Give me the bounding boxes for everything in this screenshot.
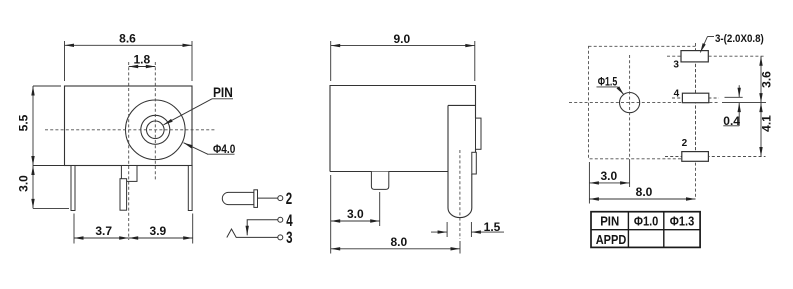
svg-text:Φ1.5: Φ1.5 (598, 74, 618, 88)
centerline vertical circle (629, 55, 631, 187)
svg-text:9.0: 9.0 (393, 32, 410, 46)
svg-text:PIN: PIN (213, 85, 233, 100)
center pin circle (147, 121, 165, 139)
svg-text:4.1: 4.1 (760, 115, 774, 132)
dimension 4.1 (760, 103, 774, 157)
svg-text:2: 2 (682, 138, 688, 149)
svg-text:3: 3 (673, 60, 679, 71)
label pad 4 (674, 88, 680, 99)
svg-text:5.5: 5.5 (17, 114, 31, 131)
centerline horizontal barrel (45, 129, 215, 131)
phi 4.0 leader label (184, 142, 236, 156)
svg-text:3.0: 3.0 (600, 169, 617, 183)
svg-text:APPD: APPD (596, 232, 627, 247)
svg-text:0.4: 0.4 (723, 114, 740, 128)
middle terminal pin (120, 179, 127, 211)
dimension 9.0 (331, 32, 475, 81)
barrel middle circle (141, 115, 170, 144)
svg-text:8.0: 8.0 (636, 185, 653, 199)
dimension 1.8 (129, 53, 156, 67)
solder pad 4 (682, 93, 708, 103)
body outline hidden (dashed rectangle) (589, 46, 696, 159)
centerline barrel tube (459, 150, 461, 239)
svg-text:Φ4.0: Φ4.0 (213, 142, 236, 156)
table cell phi 1.0 (634, 214, 659, 229)
barrel tube side view (448, 105, 476, 217)
terminal circle 2 (278, 196, 283, 201)
right terminal pin (188, 166, 192, 211)
table grid (591, 212, 700, 248)
svg-text:3.9: 3.9 (150, 224, 167, 238)
table cell PIN (600, 214, 619, 229)
svg-text:1.5: 1.5 (484, 220, 501, 234)
label pad 3 (673, 60, 679, 71)
label 4 (286, 212, 293, 230)
dimension 3.6 (760, 56, 774, 102)
terminal circle 4 (278, 217, 283, 222)
label 2 (286, 190, 292, 208)
wire pin 4 (247, 220, 277, 236)
table cell phi 1.3 (670, 214, 695, 229)
dimension 3.0 lower left (17, 166, 69, 209)
svg-text:3.6: 3.6 (760, 71, 774, 88)
svg-text:Φ1.3: Φ1.3 (670, 214, 695, 229)
wire pin 2 (258, 197, 278, 199)
svg-text:Φ1.0: Φ1.0 (634, 214, 659, 229)
svg-text:3: 3 (286, 229, 292, 247)
label pad 2 (682, 138, 688, 149)
body side view outline (330, 86, 476, 172)
svg-text:2: 2 (286, 190, 292, 208)
switch contact pin 3 (227, 229, 278, 238)
svg-text:8.0: 8.0 (390, 235, 407, 249)
table cell APPD (596, 232, 627, 247)
centerline pad 2 (665, 156, 766, 158)
terminal pin side view (371, 172, 388, 190)
svg-text:3-(2.0X0.8): 3-(2.0X0.8) (715, 33, 764, 45)
dimension 8.6 (65, 32, 193, 81)
phi 1.5 leader label (597, 74, 624, 94)
centerline pad 3 (667, 55, 766, 57)
plug flange (254, 190, 258, 208)
svg-text:4: 4 (674, 88, 680, 99)
terminal circle 3 (278, 235, 283, 240)
leader label 3-(2.0X0.8) (700, 33, 764, 53)
dimension 0.4 (723, 85, 742, 128)
left terminal pin (71, 166, 75, 211)
dimension 3.7 (74, 214, 129, 244)
label 3 (286, 229, 292, 247)
centerline pad column (695, 43, 697, 199)
solder pad 3 (681, 51, 708, 62)
plug barrel symbol (222, 192, 254, 204)
mounting tab upper (476, 118, 482, 149)
svg-text:3.0: 3.0 (17, 175, 31, 192)
centerline pad 4 (672, 97, 719, 99)
dimension 8.0 bottom view (589, 185, 695, 203)
svg-text:4: 4 (286, 212, 293, 230)
svg-text:8.6: 8.6 (119, 32, 136, 46)
svg-text:PIN: PIN (600, 214, 619, 229)
mounting tab lower (472, 152, 477, 174)
body edge between tabs (475, 149, 477, 152)
centerline vertical barrel (154, 62, 156, 180)
dimension 1.5 (431, 220, 504, 237)
PIN leader label (164, 85, 234, 125)
svg-text:3.7: 3.7 (95, 224, 112, 238)
barrel outer circle (phi 4.0) (126, 100, 186, 160)
centerline horizontal circle (569, 102, 766, 104)
centerline vertical middle pin (128, 62, 130, 240)
dimension 3.9 (129, 214, 193, 244)
dimension 3.0 side view (331, 175, 380, 254)
dimension 8.0 side view (331, 235, 460, 254)
solder pad 2 (682, 152, 709, 162)
middle terminal block (121, 166, 137, 182)
svg-text:1.8: 1.8 (133, 53, 150, 67)
svg-text:3.0: 3.0 (347, 207, 364, 221)
dimension 5.5 (17, 86, 64, 166)
dimension 3.0 bottom view (589, 162, 629, 187)
center pin hole circle phi 1.5 (620, 93, 640, 113)
body front view (65, 86, 193, 166)
